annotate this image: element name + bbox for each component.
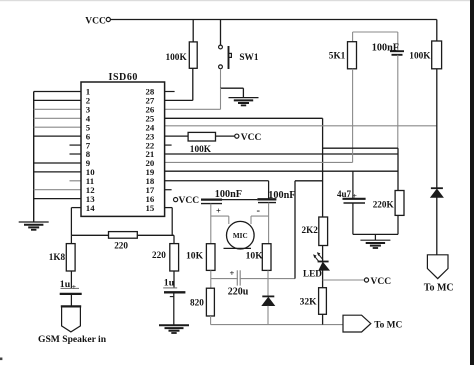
svg-text:LED: LED — [303, 269, 322, 279]
svg-text:220u: 220u — [228, 287, 249, 298]
svg-text:100nF: 100nF — [372, 43, 399, 54]
svg-text:VCC: VCC — [179, 196, 200, 206]
svg-text:+: + — [353, 191, 357, 200]
svg-text:1K8: 1K8 — [49, 252, 66, 262]
svg-text:SW1: SW1 — [239, 53, 258, 63]
svg-text:220: 220 — [152, 250, 166, 260]
svg-text:GSM Speaker in: GSM Speaker in — [38, 334, 107, 345]
svg-text:100K: 100K — [409, 51, 431, 61]
svg-text:4u7: 4u7 — [337, 189, 352, 199]
svg-text:5K1: 5K1 — [329, 51, 346, 61]
svg-text:1u: 1u — [60, 279, 71, 290]
svg-text:100nF: 100nF — [215, 189, 242, 200]
svg-text:MIC: MIC — [233, 232, 248, 240]
svg-text:10K: 10K — [186, 251, 204, 262]
svg-text:820: 820 — [190, 297, 204, 307]
svg-text:+: + — [216, 205, 221, 215]
svg-text:ISD60: ISD60 — [109, 72, 138, 83]
svg-text:220K: 220K — [373, 200, 395, 210]
svg-text:2K2: 2K2 — [302, 225, 319, 235]
svg-text:10K: 10K — [246, 250, 264, 261]
svg-text:32K: 32K — [300, 298, 318, 308]
svg-text:VCC: VCC — [241, 133, 262, 143]
svg-text:1u: 1u — [164, 278, 175, 289]
svg-text:VCC: VCC — [85, 17, 106, 27]
svg-text:-: - — [257, 205, 261, 216]
svg-text:To MC: To MC — [374, 320, 402, 330]
svg-text:100K: 100K — [166, 53, 188, 63]
svg-text:To MC: To MC — [424, 283, 454, 294]
svg-text:+: + — [230, 268, 235, 278]
svg-text:+: + — [72, 282, 76, 291]
svg-text:220: 220 — [114, 240, 128, 250]
svg-text:15: 15 — [146, 203, 155, 213]
svg-text:100nF: 100nF — [268, 190, 295, 201]
svg-text:14: 14 — [86, 203, 95, 213]
svg-text:VCC: VCC — [371, 277, 392, 287]
